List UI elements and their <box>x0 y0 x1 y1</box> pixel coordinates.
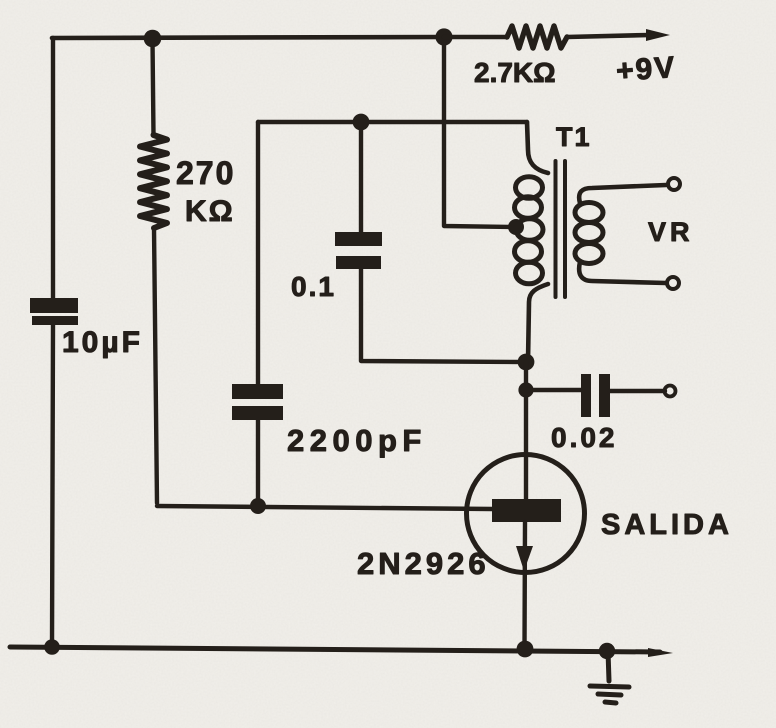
transistor Q1 emitter lead <box>522 522 527 649</box>
capacitor C 0.1 plates <box>335 232 382 269</box>
svg-text:270: 270 <box>176 155 235 191</box>
wire top rail <box>52 37 444 38</box>
wire 2.7K right lead <box>567 35 650 37</box>
terminal output 0.02 <box>665 386 676 397</box>
resistor R1 270K zigzag <box>140 135 167 228</box>
svg-text:2200pF: 2200pF <box>287 423 427 458</box>
transistor Q1 base bar <box>492 499 561 522</box>
node B junction 2200pF bottom <box>250 498 266 514</box>
wire 2.7K left lead <box>444 35 507 40</box>
transformer T1 core lines <box>554 161 558 297</box>
node E transformer center tap dot <box>508 219 524 235</box>
wire 0.02 right lead <box>610 389 665 393</box>
wire collector vertical <box>524 362 528 499</box>
transformer T1 secondary loops <box>575 203 603 223</box>
wire left rail lower <box>52 325 53 647</box>
node J junction ground <box>599 643 615 659</box>
wire base rail horizontal <box>157 506 492 509</box>
wire second rail y122 <box>258 120 527 124</box>
wire 270K top lead <box>153 40 154 135</box>
transformer T1 secondary top lead <box>579 185 666 203</box>
svg-text:SALIDA: SALIDA <box>601 509 733 541</box>
node D junction 2.7K left <box>435 28 452 45</box>
capacitor C 0.02 plates <box>581 374 610 417</box>
svg-text:VR: VR <box>648 217 694 247</box>
resistor R2 2.7K zigzag <box>507 26 567 48</box>
wire 0.1 top lead <box>359 122 363 232</box>
capacitor C 2200pF plates <box>232 384 283 420</box>
wire bottom rail <box>10 647 660 652</box>
node C junction 0.1 top <box>353 114 370 131</box>
svg-text:T1: T1 <box>556 122 592 152</box>
transformer T1 primary exit <box>528 284 548 362</box>
node H junction bottom left <box>44 639 60 655</box>
capacitor C 10uF plates <box>30 298 78 325</box>
svg-text:+9V: +9V <box>615 51 677 88</box>
node G junction 0.02 <box>518 382 533 397</box>
svg-text:2.7KΩ: 2.7KΩ <box>474 57 556 88</box>
transformer T1 primary entry <box>527 122 548 173</box>
wire tap vertical x444 <box>444 37 516 227</box>
ground <box>590 651 629 703</box>
wire 2200pF top lead <box>256 122 260 384</box>
node I junction emitter bottom <box>517 641 534 658</box>
arrow +9V <box>646 29 670 41</box>
wire 0.02 left lead <box>526 388 582 392</box>
terminal VR top <box>668 178 680 190</box>
wire 2200pF bottom lead <box>256 420 260 506</box>
node F junction transformer bottom <box>518 354 535 371</box>
transistor Q1 circle <box>467 455 585 573</box>
wire 270K bottom lead <box>154 228 157 503</box>
transistor Q1 emitter arrow <box>516 546 533 571</box>
svg-text:2N2926: 2N2926 <box>357 546 490 581</box>
arrow bottom rail end <box>648 648 673 657</box>
transformer T1 secondary bottom lead <box>579 262 666 283</box>
wire left rail upper <box>51 38 55 298</box>
svg-text:0.1: 0.1 <box>291 271 336 302</box>
transformer T1 primary loops <box>516 177 543 199</box>
svg-text:10µF: 10µF <box>62 326 143 359</box>
node A junction top of 270K <box>144 30 162 48</box>
svg-text:0.02: 0.02 <box>551 422 618 453</box>
svg-text:KΩ: KΩ <box>185 195 235 228</box>
terminal VR bottom <box>667 277 679 289</box>
wire 0.1 bottom lead <box>361 269 526 362</box>
